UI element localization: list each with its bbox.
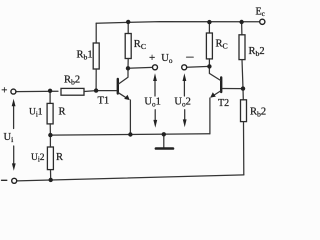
transistor T2 [209, 66, 243, 133]
svg-text:Uo2: Uo2 [174, 97, 190, 109]
junction dot emitter T1 [128, 132, 132, 136]
arrowhead Uo2 down [183, 119, 187, 127]
svg-text:T2: T2 [218, 98, 229, 109]
terminal: output 1 [153, 65, 158, 70]
junction dot emitter bus / R mid tap [48, 133, 52, 137]
svg-text:Rb2: Rb2 [250, 107, 266, 119]
wire: output terminal 2 to collector T2 [187, 65, 210, 68]
arrow Uo2 down shaft [184, 110, 186, 120]
resistor Rb1 (left bias) [93, 23, 99, 90]
junction dot ground [162, 132, 166, 136]
svg-text:Rb2: Rb2 [249, 46, 265, 58]
wire: top supply rail [96, 22, 260, 24]
resistor Rb2 right bottom [241, 89, 247, 175]
terminal: output 2 [182, 65, 187, 70]
junction dot top rail RC left [126, 20, 130, 24]
svg-text:Ec: Ec [256, 7, 265, 19]
arrowhead Uo2 up [183, 73, 187, 81]
wire: bottom rail [17, 175, 244, 181]
svg-text:Uo1: Uo1 [144, 97, 160, 109]
junction dot bottom rail / R lower [49, 178, 53, 182]
svg-text:Ui2: Ui2 [31, 153, 45, 164]
arrow Uo2 up shaft [183, 80, 185, 96]
svg-text:Ui: Ui [4, 132, 15, 144]
svg-text:Uo: Uo [161, 53, 173, 65]
transistor T1 [96, 68, 130, 134]
junction dot top rail Rb2 right [239, 20, 243, 24]
arrowhead Ui down [12, 163, 16, 170]
svg-text:R: R [56, 152, 63, 163]
junction dot collector T1 [126, 66, 130, 70]
arrowhead T1 emitter [124, 95, 130, 100]
junction dot top rail RC right [207, 20, 211, 24]
arrowhead Ui up [12, 99, 16, 107]
junction dot collector T2 [207, 64, 211, 68]
resistor R upper (Ui1) [47, 91, 53, 135]
arrowhead T2 emitter [210, 92, 216, 97]
arrowhead Uo1 down [153, 120, 157, 128]
arrow Ui top shaft [13, 106, 15, 129]
svg-text:+: + [1, 85, 7, 97]
svg-text:Rb1: Rb1 [77, 50, 93, 62]
svg-text:Rb2: Rb2 [64, 75, 80, 87]
resistor RC left [125, 22, 131, 68]
arrow Ui bottom shaft [13, 146, 15, 165]
terminal: input minus (bottom) [12, 178, 17, 183]
resistor RC right [206, 22, 212, 66]
resistor R lower (Ui2) [47, 135, 53, 180]
arrowhead Uo1 up [153, 73, 157, 81]
junction dot input / R upper [48, 89, 52, 93]
junction dot base T1 / Rb1 [94, 88, 98, 92]
arrow Uo1 up shaft [154, 80, 156, 96]
junction dot base T2 / Rb2 [241, 86, 245, 90]
ground [156, 134, 173, 148]
wire: input top (plus terminal to T1 base) [16, 90, 58, 92]
svg-text:Ui1: Ui1 [29, 108, 43, 119]
svg-text:R: R [59, 106, 66, 117]
minus sign above output 2 [187, 56, 194, 58]
resistor Rb2 right top [239, 22, 245, 89]
wire: emitter bus [50, 134, 210, 135]
resistor Rb2 horizontal [61, 88, 96, 95]
minus sign at bottom input terminal [2, 179, 7, 181]
wire: collector T1 to output terminal 1 [128, 66, 152, 69]
svg-text:+: + [149, 52, 155, 64]
svg-text:RC: RC [134, 39, 146, 51]
terminal: input plus [11, 89, 16, 94]
arrow Uo1 down shaft [154, 110, 156, 121]
terminal: Ec supply [260, 19, 265, 24]
svg-text:RC: RC [216, 39, 228, 51]
svg-text:T1: T1 [98, 96, 110, 107]
